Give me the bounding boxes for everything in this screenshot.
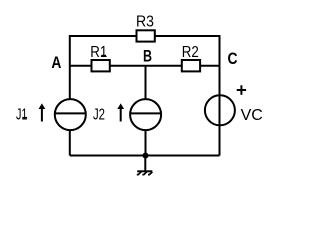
svg-text:VC: VC [241,107,263,124]
svg-text:R1: R1 [90,44,107,61]
svg-text:J2: J2 [93,106,105,123]
svg-text:R3: R3 [136,14,154,31]
svg-text:A: A [51,53,61,72]
svg-text:J1: J1 [16,106,28,123]
svg-text:C: C [228,49,238,68]
svg-text:B: B [143,47,152,66]
svg-text:R2: R2 [182,44,199,61]
